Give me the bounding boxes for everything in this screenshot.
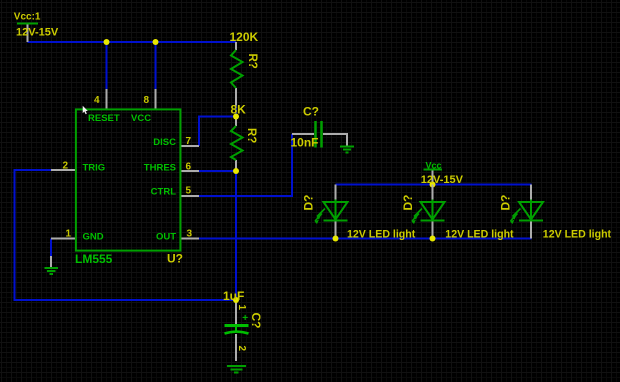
- svg-text:+: +: [242, 313, 248, 324]
- svg-text:GND: GND: [83, 231, 104, 242]
- svg-text:R?: R?: [245, 128, 257, 143]
- ground symbol under C3: [227, 366, 246, 373]
- wire LED anode top bus: [336, 184, 532, 186]
- pin stub LED1 cathode: [335, 221, 337, 239]
- pin stub Vcc left supply: [27, 24, 29, 42]
- junction LED1 cathode/bus: [333, 236, 339, 242]
- svg-text:8K: 8K: [231, 103, 247, 117]
- wire CTRL to 10nF: [199, 134, 292, 196]
- wire pin8 drop: [155, 42, 157, 89]
- mouse cursor: [83, 106, 88, 114]
- svg-text:2: 2: [63, 161, 69, 172]
- pin stub GND 1: [51, 238, 75, 240]
- power symbol Vcc right bar: [424, 169, 443, 171]
- pin stub 8: [155, 89, 157, 110]
- svg-text:TRIG: TRIG: [83, 163, 106, 174]
- pin stub C3 bottom: [235, 334, 237, 361]
- svg-text:RESET: RESET: [88, 113, 120, 124]
- svg-text:C?: C?: [303, 105, 319, 119]
- svg-text:R?: R?: [246, 54, 258, 69]
- svg-text:OUT: OUT: [156, 231, 176, 242]
- svg-text:D?: D?: [302, 195, 316, 211]
- svg-text:Vcc: Vcc: [426, 161, 442, 171]
- pin stub LED2 cathode: [432, 221, 434, 239]
- pin stub THRES 6: [181, 170, 200, 172]
- svg-text:D?: D?: [401, 195, 415, 211]
- pin stub TRIG 2: [51, 169, 75, 171]
- svg-text:1uF: 1uF: [223, 289, 244, 303]
- pin stub C3 top: [235, 300, 237, 325]
- pin stub R1 top: [235, 42, 237, 50]
- junction DISC/resistors: [233, 114, 239, 120]
- svg-text:120K: 120K: [230, 30, 259, 44]
- svg-text:8: 8: [144, 95, 150, 106]
- wire top rail Vcc: [28, 41, 237, 43]
- svg-text:7: 7: [186, 136, 192, 147]
- svg-text:12V-15V: 12V-15V: [16, 27, 59, 39]
- IC U? LM555 body: [76, 109, 180, 250]
- wire TRIG feedback loop: [15, 170, 237, 300]
- svg-text:6: 6: [186, 162, 192, 173]
- junction Vcc/LED top bus: [430, 182, 436, 188]
- junction pin8/rail: [153, 39, 159, 45]
- pin stub R2 top: [235, 117, 237, 127]
- wire THRES to 8K bottom: [199, 170, 236, 172]
- pin stub R2 bottom: [235, 160, 237, 171]
- pin stub R1 bottom: [235, 88, 237, 106]
- svg-text:12V-15V: 12V-15V: [421, 174, 464, 186]
- svg-text:LM555: LM555: [75, 252, 113, 266]
- pin stub OUT 3: [181, 238, 200, 240]
- junction THRES/8K: [233, 168, 239, 174]
- pin stub Vcc right supply: [432, 170, 434, 185]
- ground symbol under 10nF: [340, 147, 354, 153]
- wire main vertical to cap: [235, 171, 237, 300]
- svg-text:3: 3: [187, 229, 193, 240]
- svg-text:U?: U?: [167, 252, 183, 266]
- pin stub gnd1: [50, 256, 52, 267]
- svg-text:1: 1: [236, 305, 247, 311]
- svg-text:5: 5: [186, 186, 192, 197]
- capacitor C3 1uF plates: [225, 326, 249, 334]
- wire between resistors: [235, 106, 237, 117]
- LED D2: [432, 185, 434, 200]
- svg-text:C?: C?: [249, 313, 263, 329]
- wire GND pin drop: [50, 239, 52, 257]
- svg-text:Vcc:1: Vcc:1: [14, 12, 41, 23]
- LED D1: [335, 185, 337, 200]
- svg-text:4: 4: [94, 95, 100, 106]
- resistor R2 8K zigzag: [231, 126, 243, 160]
- junction TRIG/cap C3: [233, 297, 239, 303]
- svg-text:12V LED light: 12V LED light: [543, 229, 612, 241]
- svg-text:1: 1: [66, 229, 72, 240]
- svg-text:D?: D?: [499, 195, 513, 211]
- svg-text:12V LED light: 12V LED light: [347, 229, 416, 241]
- wire OUT bus to LEDs: [199, 238, 532, 240]
- power symbol Vcc left bar: [17, 23, 38, 25]
- svg-text:CTRL: CTRL: [151, 187, 177, 198]
- junction LED2 cathode/bus: [430, 236, 436, 242]
- svg-text:VCC: VCC: [131, 113, 151, 124]
- pin stub C2 right lead: [323, 134, 347, 146]
- svg-text:2: 2: [236, 346, 247, 352]
- svg-text:10nF: 10nF: [291, 136, 319, 150]
- svg-text:DISC: DISC: [153, 137, 176, 148]
- wire DISC to resistor junction: [199, 117, 236, 147]
- pin stub LED3 cathode: [530, 221, 532, 239]
- LED D3: [530, 185, 532, 200]
- capacitor C2 10nF plates: [316, 121, 322, 148]
- wire pin4 drop: [106, 42, 108, 89]
- pin stub CTRL 5: [181, 195, 200, 197]
- junction pin4/rail: [104, 39, 110, 45]
- resistor R1 120K zigzag: [231, 50, 243, 88]
- svg-text:THRES: THRES: [144, 163, 176, 174]
- svg-text:12V LED light: 12V LED light: [445, 229, 514, 241]
- pin stub C2 left lead: [292, 133, 314, 135]
- pin stub DISC 7: [181, 145, 200, 147]
- ground symbol under GND pin: [45, 268, 59, 274]
- pin stub 4: [106, 89, 108, 110]
